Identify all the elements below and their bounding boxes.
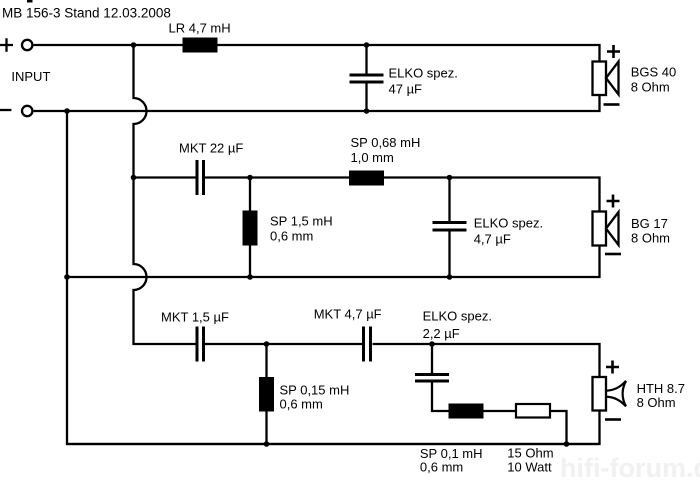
svg-text:ELKO spez.: ELKO spez. [423, 309, 492, 324]
svg-text:8 Ohm: 8 Ohm [631, 80, 670, 95]
svg-text:2,2 µF: 2,2 µF [423, 326, 460, 341]
svg-text:INPUT: INPUT [11, 69, 50, 84]
svg-text:0,6 mm: 0,6 mm [280, 397, 323, 412]
svg-text:hifi-forum.de: hifi-forum.de [560, 453, 700, 483]
svg-text:BG 17: BG 17 [631, 216, 668, 231]
svg-text:8 Ohm: 8 Ohm [631, 231, 670, 246]
svg-text:15 Ohm: 15 Ohm [507, 446, 553, 461]
svg-text:SP 0,68 mH: SP 0,68 mH [351, 135, 421, 150]
svg-text:47 µF: 47 µF [389, 82, 423, 97]
svg-text:8 Ohm: 8 Ohm [637, 395, 676, 410]
svg-text:SP 1,5 mH: SP 1,5 mH [270, 214, 333, 229]
svg-text:MKT 22 µF: MKT 22 µF [179, 141, 243, 156]
svg-text:10 Watt: 10 Watt [507, 460, 552, 475]
svg-text:ELKO spez.: ELKO spez. [474, 216, 543, 231]
svg-text:SP 0,15 mH: SP 0,15 mH [280, 383, 350, 398]
svg-text:0,6 mm: 0,6 mm [420, 460, 463, 475]
svg-text:1,0 mm: 1,0 mm [351, 150, 394, 165]
svg-text:BGS 40: BGS 40 [631, 65, 677, 80]
svg-text:LR 4,7 mH: LR 4,7 mH [169, 21, 231, 36]
svg-text:HTH 8.7: HTH 8.7 [637, 381, 685, 396]
svg-text:ELKO spez.: ELKO spez. [389, 66, 458, 81]
svg-text:4,7 µF: 4,7 µF [474, 232, 511, 247]
svg-text:MKT 1,5 µF: MKT 1,5 µF [161, 310, 229, 325]
svg-text:MB 156-3 Stand 12.03.2008: MB 156-3 Stand 12.03.2008 [2, 6, 171, 21]
svg-text:0,6 mm: 0,6 mm [270, 229, 313, 244]
svg-text:MKT 4,7 µF: MKT 4,7 µF [314, 307, 382, 322]
